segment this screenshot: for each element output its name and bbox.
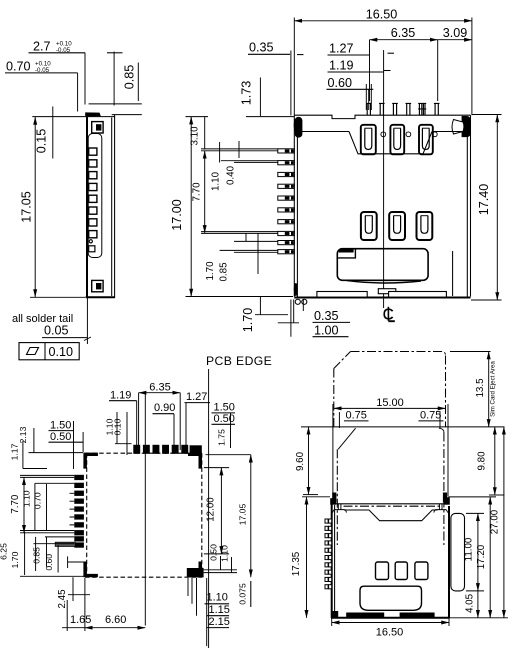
top view cover trapezoid dip [349,132,432,154]
dim 1.19 underline [109,400,137,402]
svg-text:0.75: 0.75 [346,409,367,421]
svg-text:6.35: 6.35 [391,26,416,40]
dim 1.50/0.50 left extensions [73,421,75,469]
svg-text:11.00: 11.00 [464,537,475,561]
top view centerline [383,50,385,308]
top view solder tab left [317,292,367,298]
top view right inner wall line [452,251,454,296]
side view pin tip line (0.85 upper extension) [89,103,142,105]
top view body bottom edge [294,297,470,299]
bottom pad extension verticals [187,578,189,596]
ejector rail left [333,504,347,513]
pin extension row8 [201,231,278,233]
dim 6.35 dim line [370,39,438,41]
card top extension line [450,351,491,353]
svg-text:1.17: 1.17 [10,443,20,460]
dim 17.35 dim line [306,497,308,618]
svg-text:16.50: 16.50 [376,627,404,639]
svg-text:6.60: 6.60 [105,614,126,626]
dim 17.05 dim line [250,455,252,578]
ejector rail right [434,504,448,513]
dim 0.90 underline [153,413,175,415]
middle window 1 [376,562,389,580]
svg-text:2.13: 2.13 [18,426,28,443]
top view latch window 1 [361,125,376,155]
top view top pin 5 wide [418,103,426,115]
dim 3.09 dim line [438,39,472,41]
dim 27.00 bottom extension [450,617,508,619]
svg-text:7.70: 7.70 [192,182,203,202]
footprint bottom-right pad [187,568,204,577]
dim 3.10 dim line [204,117,206,150]
dim 1.19 extension [136,401,138,446]
dim 0.35 top underline [248,53,290,55]
svg-text:1.73: 1.73 [240,81,254,106]
svg-text:1.10: 1.10 [220,545,230,562]
body left edge inner [334,505,336,616]
dim 1.17 extension [23,468,47,470]
svg-text:27.00: 27.00 [490,509,501,534]
dim 16.50 extension left [293,18,295,116]
footprint detect pad wide [55,542,75,546]
svg-text:PCB EDGE: PCB EDGE [206,354,272,368]
svg-text:1.00: 1.00 [314,324,339,338]
side view detect contact [89,246,95,252]
dim 0.50/1.10 right leader lines [204,569,237,571]
dim 1.75 dim line [230,413,232,448]
dim 15.00 dim line [334,407,446,409]
top view left pin row [278,149,295,254]
dim 6.35 dim line [139,392,181,394]
dim 17.05 bottom extension [30,296,85,298]
dim 0.85 dim line [137,63,139,102]
dim 0.75 left underline [344,420,369,422]
top view latch window 3 [419,125,433,155]
pin extension lines row1 [201,148,278,150]
side view contact 5 [89,195,97,202]
top view card pocket bottom curve [347,281,421,283]
svg-text:0.75: 0.75 [420,409,441,421]
svg-text:1.27: 1.27 [186,391,207,403]
body top edge [334,503,450,505]
top view solder tab right [389,292,447,298]
dim 1.27 underline [185,402,211,404]
svg-text:0.05: 0.05 [44,324,69,338]
left pad extension lines [20,476,74,478]
dim 17.20 dim line [489,497,491,618]
dim 1.27 tick [388,52,395,54]
svg-text:0.60: 0.60 [44,554,54,571]
svg-text:7.70: 7.70 [10,494,21,514]
side view body bottom edge [86,296,115,298]
svg-text:Sim Card Eject Area: Sim Card Eject Area [490,361,497,417]
footprint top-right big pad [190,445,202,455]
flatness symbol parallelogram [27,348,39,355]
dim 16.50 bottom dim line [332,622,449,624]
bottom-left corner blob [332,611,339,618]
dim 7.70 left dim line [23,477,25,532]
bottom solder bar left [346,613,384,618]
footprint outline dashed left [86,453,88,577]
pin extension row9 [234,240,278,242]
dim 1.15 bottom underline [207,615,230,617]
side view cover top extension (0.85 lower extension) [112,114,142,116]
dim 0.15 extension [32,116,85,118]
top view body left edge inner [296,132,298,297]
dim 9.80 bottom extension [489,494,504,496]
svg-text:0.50: 0.50 [214,413,235,425]
footprint left pad column [74,475,84,548]
side view bottom latch hook inner [96,283,101,289]
dim 2.13 extension [29,452,84,454]
dim 0.60 underline [327,88,374,90]
footprint centerline vertical [144,393,146,626]
dim 4.05 dim line [477,591,479,618]
side view detect contact dot [89,240,92,243]
svg-text:1.70: 1.70 [10,551,20,568]
svg-text:2.7: 2.7 [33,40,51,54]
dim 0.40 dim line [238,141,240,158]
footprint right extension at top pads [206,454,251,456]
dim 6.35 extension left [369,40,371,101]
svg-text:0.35: 0.35 [314,309,339,323]
card pocket bottom view [360,586,422,610]
svg-text:1.19: 1.19 [110,390,131,402]
cover trapezoid dip [344,510,438,521]
dim 6.35 extensions [138,393,140,446]
top view body top edge with notch [294,115,470,118]
top view bottom-left corner ears [295,299,300,304]
side view contact 6 [89,207,97,214]
side view body top edge [86,116,115,118]
dim 17.35 top extension [302,496,330,498]
svg-text:2.15: 2.15 [209,616,230,628]
dim 0.075 underline (vertical) [250,581,252,607]
top view top pin 4 [406,103,412,115]
dim 17.40 top extension [472,114,502,116]
pin extension row10 [220,249,278,251]
sim card corner chamfer [334,352,351,369]
svg-text:3.10: 3.10 [190,126,201,146]
side view right wall inner [111,118,113,297]
dim 1.10 left dim line [34,483,36,531]
svg-text:1.75: 1.75 [217,429,227,446]
footprint corner mark top-left [83,453,98,469]
side view cover bent lip [85,112,101,116]
footprint left pad ticks [70,493,75,525]
body right edge [448,506,450,618]
footprint top pad row [133,445,188,454]
top view cover line left [302,131,350,133]
top view card pocket [337,249,428,281]
right side flap [451,513,465,591]
svg-text:0.85: 0.85 [32,547,42,564]
top view top pin 2 [379,103,385,115]
PCB edge line vertical [208,369,210,648]
svg-text:0.15: 0.15 [35,129,49,154]
dim 1.73 dim line [259,78,261,117]
svg-text:0.40: 0.40 [226,165,237,185]
card edge extension right solid [447,404,449,497]
svg-text:1.50: 1.50 [214,402,235,414]
dim 0.75 right underline [419,420,444,422]
dim 9.60 bottom extension [303,494,318,496]
svg-text:1.70: 1.70 [241,308,255,333]
dim 11.00 extensions [466,512,484,514]
flatness feature control frame [19,343,79,360]
svg-text:0.10: 0.10 [113,418,123,435]
svg-text:6.25: 6.25 [0,543,9,560]
top view body right edge inner [466,137,468,297]
dim 0.60 extensions [365,84,367,110]
svg-text:17.35: 17.35 [291,551,302,576]
svg-text:0.85: 0.85 [123,65,137,90]
dim 0.05 tick [84,337,91,341]
sim card left edge upper [333,369,335,428]
sim card right edge upper [445,356,447,428]
svg-text:1.19: 1.19 [329,59,354,73]
dim 1.50 top-right underline [212,412,236,414]
svg-text:1.27: 1.27 [329,42,354,56]
dim 1.27 extension [185,403,187,446]
top view rivet circle 3 [432,132,437,137]
footprint outline dashed bottom [85,576,202,578]
body bottom edge [331,617,450,619]
svg-text:0.50: 0.50 [209,544,219,561]
side view contact 1 [89,148,97,155]
top view solder tab center [378,289,396,294]
dim 1.70 bottom-left extension [255,314,288,316]
dim 0.60 dim line [57,545,59,573]
dim 11.00 dim line [477,513,479,591]
dim 2.45 dim line [72,577,74,601]
middle window 2 [395,562,407,580]
dim 0.05 leader vertical [86,298,88,344]
svg-text:0.35: 0.35 [249,41,274,55]
dim 0.50 top-left underline [49,441,84,443]
svg-text:1.65: 1.65 [70,614,91,626]
dim 27.00 dim line [503,427,505,618]
side view top latch hook inner [96,124,101,130]
side view pocket outline [88,134,102,258]
dim 1.65/6.60 dim line [62,627,85,629]
dim 0.35 top tick [297,54,304,56]
dim 0.90 extension [173,414,175,446]
dim 2.7 extension left [84,53,86,105]
svg-text:1.70: 1.70 [205,261,216,281]
dim 17.00 top extension [186,116,209,118]
bottom solder bar right [400,613,435,618]
top view body left edge outer [293,115,295,296]
dim 0.70 underline [5,72,78,74]
dim 1.50 top-left underline [49,430,74,432]
sim card edges inside connector [336,449,338,545]
svg-text:12.00: 12.00 [206,497,217,522]
side view contact 4 [89,183,97,190]
svg-text:0.85: 0.85 [219,262,230,282]
top view top pin 3 [392,103,398,115]
dim 1.73 extension [246,116,294,118]
svg-text:3.09: 3.09 [443,26,468,40]
side view bottom latch hook outer [92,280,103,291]
top view card pocket notch [339,249,354,252]
dim 0.35 extension line [290,51,292,116]
dim 16.50 extension right [471,18,473,116]
svg-text:1.10: 1.10 [207,592,228,604]
footprint corner mark bottom-right [188,561,202,577]
body left edge [331,503,333,618]
svg-text:17.05: 17.05 [238,504,248,526]
dim 0.50 top-right underline [212,423,236,425]
dim 13.5 dim line [488,352,490,427]
dim 6.25 dim line [24,532,26,576]
dim 1.10 dim line [219,142,221,163]
top view left edge blobs bottom [294,283,298,296]
svg-text:1.50: 1.50 [50,419,71,431]
dim 2.7 underline and dim line [29,52,86,54]
side view right wall outer [114,115,116,298]
svg-text:15.00: 15.00 [376,397,404,409]
dim 1.19 tick [384,70,391,72]
svg-text:0.60: 0.60 [328,76,353,90]
dim 0.75 ticks [338,412,340,428]
dim 0.35 bottom underline [313,321,351,323]
dim 0.05 underline [42,337,87,339]
top view left edge blobs top [294,119,298,131]
dim 12.00 dim line [220,468,222,554]
dim 17.05 dim line [34,117,36,297]
footprint corner mark top-right [188,453,202,469]
body top-right corner blob [444,497,450,505]
middle window 3 [415,562,428,580]
top view rivet circle 2 [406,132,411,137]
dim 0.70 left dim line [46,484,48,531]
dim 9.80 dim line [494,427,496,495]
dim 0.85/1.70 dim lines [245,233,247,241]
top view rivet circle 1 [381,132,386,137]
slot funnel right arc [439,428,444,432]
side view body left wall [86,116,88,298]
sim card top edge (phantom) [351,352,446,356]
sim card leading edge inside (phantom horizontal) [344,505,442,507]
dim 16.50 dim line [294,20,472,22]
side view contact 3 [89,172,97,179]
svg-text:9.60: 9.60 [295,451,306,471]
svg-text:17.00: 17.00 [170,199,184,231]
dim 17.00 bottom extension [186,296,294,298]
footprint corner mark bottom-left [83,561,98,577]
svg-text:13.5: 13.5 [475,378,486,398]
top view body right edge outer [470,115,472,296]
svg-text:0.50: 0.50 [50,431,71,443]
dim 6.35 extension right [437,40,439,101]
dim 1.27 underline [328,54,370,56]
top view top pin 1 [366,103,372,115]
svg-text:1.15: 1.15 [209,604,230,616]
PCB edge level line [301,426,505,428]
dim 1.70 bottom-left dim line [259,297,261,315]
dim 17.00 dim line [190,117,192,297]
svg-text:4.05: 4.05 [465,593,476,613]
svg-text:0.70: 0.70 [33,492,43,509]
dim 17.40 bottom extension [471,299,502,301]
dim 7.70 dim line [204,151,206,233]
dim 1.10/0.10 leader lines [116,412,118,444]
top view centerline symbol [384,309,392,319]
dim 1.70 dim line [35,537,37,571]
top view latch window 2 [390,125,404,155]
svg-text:9.80: 9.80 [477,451,488,471]
dim 17.40 dim line [496,115,498,301]
dim 1.19 underline [328,71,384,73]
pin extension row2 [221,160,278,162]
dim 2.7 extension right [113,52,115,106]
dim 1.10 bottom underline [205,603,230,605]
svg-text:2.45: 2.45 [57,589,68,609]
dim 2.15 bottom underline [207,627,230,629]
dim extensions at bottom [84,578,86,631]
slot funnel left diagonal [338,428,356,449]
sim card edge black blobs [332,493,336,503]
dim 2.45 extension [68,594,90,596]
side view contact 8 [89,231,97,238]
dim 0.70 extension [77,73,79,112]
svg-text:0.90: 0.90 [154,402,175,414]
dim 12.00 extensions [204,467,229,469]
side view contact 7 [89,219,97,226]
svg-text:1.10: 1.10 [22,490,32,507]
top view top pin 6 [434,103,440,115]
svg-text:1.10: 1.10 [211,171,222,191]
body top-left corner blob [330,498,336,505]
top view left rolled end [295,118,302,138]
dim 0.60 tick [67,556,69,568]
svg-text:17.05: 17.05 [20,191,34,223]
svg-text:0.10: 0.10 [49,345,74,359]
footprint outline dashed top [85,452,202,454]
top view cover line right [432,131,462,133]
side view top latch hook outer [92,122,103,133]
svg-text:16.50: 16.50 [366,8,398,22]
top view middle contact 1 [361,212,377,240]
dim 1.17 dim line [22,441,24,469]
svg-text:6.35: 6.35 [149,382,170,394]
card edge extension left solid [332,404,334,495]
svg-text:0.075: 0.075 [238,583,248,605]
dim 16.50 bottom extensions [331,618,333,626]
dim 17.20 top extension [449,496,497,498]
footprint outline dashed right [201,453,203,577]
left solder tails column [325,519,332,589]
top view right rolled end [462,116,471,137]
dim bottom extension lines [290,300,292,337]
svg-text:0.70: 0.70 [6,60,31,74]
dim 0.85 dim line [46,537,48,567]
dim 1.00 bottom underline [313,336,349,338]
dim 2.13 dim line [33,428,35,453]
svg-text:17.40: 17.40 [477,184,491,216]
side view contact 2 [89,160,97,167]
dim 9.60 dim line [308,427,310,495]
dim 0.15 dim line [52,107,54,159]
